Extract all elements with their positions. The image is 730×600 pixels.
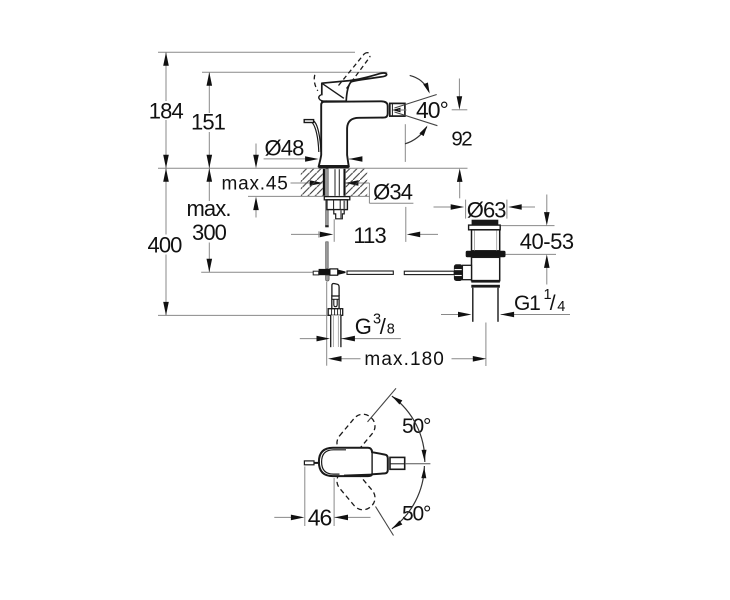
swivel upper arc arrow [392, 396, 425, 462]
svg-text:46: 46 [308, 505, 332, 531]
400 bottom ref line [158, 314, 330, 316]
svg-text:Ø48: Ø48 [265, 136, 305, 161]
spray lower ray [395, 112, 438, 126]
svg-text:max.: max. [186, 196, 230, 221]
pop-up rod lower [326, 242, 329, 269]
valve lower body [472, 257, 500, 280]
spray upper ray [395, 95, 437, 109]
valve knob connector [462, 265, 471, 279]
faucet body and spout [319, 101, 388, 166]
pull-rod knob (side view) [304, 120, 313, 123]
rod tip below clamp [326, 275, 330, 281]
dim line 184/400 vertical [165, 52, 167, 101]
svg-text:max.45: max.45 [222, 173, 289, 194]
handle top view outline [319, 448, 388, 476]
body-spout joint line (top view) [371, 452, 373, 474]
swivel upper ray [368, 388, 397, 422]
valve upper body [472, 230, 500, 251]
dim 92 tick and shafts [452, 109, 468, 111]
countertop hatch left [301, 169, 323, 196]
dim O48 underline and shafts [264, 158, 306, 160]
shank through deck [323, 169, 346, 197]
handle raised dashed outline [314, 53, 370, 91]
svg-text:92: 92 [451, 128, 472, 151]
washer under deck [324, 197, 350, 200]
handle skirt lower lip [319, 95, 327, 102]
max45 leader line [291, 182, 311, 184]
handle solid lever [322, 73, 387, 101]
rod collar left of clamp [313, 271, 319, 275]
dashed lobe lower (-50) [332, 464, 379, 514]
svg-text:40-53: 40-53 [520, 229, 574, 254]
countertop hatch right [346, 169, 368, 196]
dim G1 1/4 [441, 314, 459, 316]
valve tailpipe G1 1/4 [473, 288, 498, 322]
G3/8 pipe [331, 315, 341, 347]
pop-up rod upper (in shank) [326, 169, 329, 226]
rod clamp joint [319, 269, 330, 275]
swivel lower ray [376, 507, 394, 536]
spray upper arc arrow [410, 75, 429, 91]
body edge inner (top view) [322, 450, 346, 474]
ref line 151 top [202, 71, 387, 73]
max300 / horizontal rod line [201, 271, 314, 273]
hose fitting nut [328, 309, 343, 316]
swivel axis line [405, 463, 431, 465]
spray 40deg vertex arrow [392, 108, 400, 113]
pull-rod curve (side view) [312, 121, 321, 152]
dim O63 ext lines and shafts [465, 200, 467, 219]
SIDE-VIEW-DIMS [158, 52, 570, 366]
svg-text:Ø34: Ø34 [373, 180, 413, 205]
handle skirt inner edge [322, 84, 344, 99]
dim G3/8 [300, 338, 317, 340]
mounting nut [327, 200, 348, 210]
swivel lower arc arrow [392, 466, 425, 529]
svg-text:50°: 50° [402, 415, 431, 438]
pull-rod knob (top view) [304, 461, 314, 465]
faucet base bottom band [319, 165, 349, 168]
svg-text:Ø63: Ø63 [467, 197, 507, 222]
horizontal linkage rod segment 2 [404, 271, 454, 274]
hose fitting top tube [332, 283, 339, 296]
aerator (top view) [390, 457, 405, 469]
valve bottom rings [471, 280, 500, 282]
ref line 184 top [158, 51, 355, 53]
arrowheads side view [163, 52, 549, 361]
valve o-ring seal [466, 251, 506, 257]
dim 113 [291, 233, 321, 235]
svg-text:max.180: max.180 [364, 349, 445, 370]
shank tail piece [334, 210, 344, 219]
svg-text:400: 400 [147, 233, 182, 258]
deck top line [158, 167, 468, 169]
spray lower arc arrow [405, 127, 427, 144]
svg-text:184: 184 [149, 98, 184, 123]
dim max180 [326, 282, 328, 366]
svg-text:113: 113 [353, 223, 386, 248]
horizontal linkage rod segment 1 [347, 271, 393, 274]
O34 leader: corner + underline [345, 182, 370, 184]
valve top flange [469, 225, 501, 230]
dim 40-53 ref lines and shafts [501, 225, 555, 227]
svg-text:40°: 40° [416, 97, 448, 123]
spout outlet ext line [404, 124, 406, 162]
dim 46 [274, 467, 370, 527]
dim max45 vertical arrows shafts [255, 144, 257, 157]
dim line 151/max300 vertical [208, 72, 210, 113]
valve plug cap [472, 220, 499, 225]
svg-text:151: 151 [191, 110, 226, 135]
dashed lobe upper (+50) [332, 410, 379, 460]
svg-text:300: 300 [192, 220, 227, 245]
hose fitting mid section [332, 296, 339, 309]
deck bottom line [248, 195, 370, 197]
valve rod knob knurled [454, 264, 463, 281]
body bottom thick segment [344, 475, 372, 476]
aerator (side view) [390, 103, 405, 116]
